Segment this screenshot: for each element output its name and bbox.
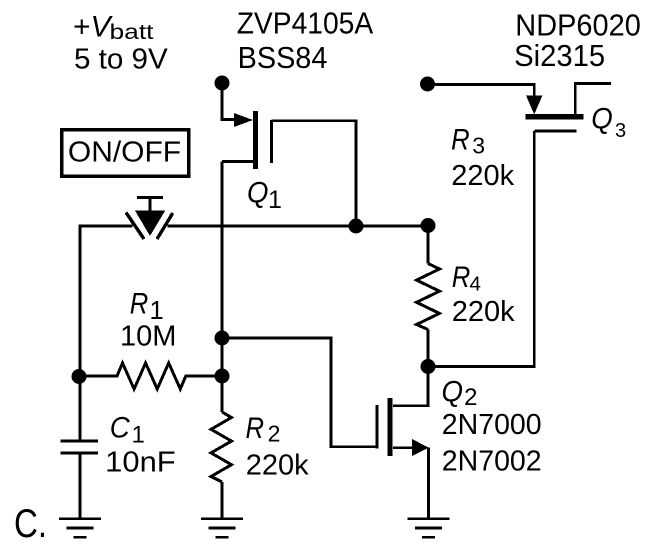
wire: R4 bottom junction to Q3 gate (428, 131, 534, 367)
svg-text:R: R (451, 123, 470, 156)
wire: R2 top lead (221, 376, 224, 412)
wire: Q2 source contact (393, 446, 414, 449)
svg-text:3: 3 (472, 133, 485, 159)
label C1 value 10nF (105, 412, 176, 479)
label R4 value 220k (452, 261, 515, 328)
switch S1 left contact slash (126, 213, 144, 240)
wire: Q3 source lead (435, 85, 534, 97)
svg-text:R: R (130, 288, 149, 321)
wire: Q2 drain lead from junction (393, 367, 428, 406)
label Q2 2N7000 2N7002 (442, 375, 542, 477)
transistor Q3 source arrow (526, 96, 542, 115)
wire: C1 top lead (79, 377, 82, 441)
ground under C1 (59, 519, 101, 537)
transistor Q1 channel bar (253, 111, 258, 169)
svg-text:Q: Q (442, 375, 464, 408)
transistor Q2 source arrow (412, 439, 429, 456)
svg-text:2N7002: 2N7002 (442, 446, 542, 478)
svg-text:1: 1 (132, 421, 145, 448)
resistor R1 body (79, 363, 222, 389)
transistor Q3 channel bar (525, 114, 583, 119)
svg-text:+V: +V (73, 10, 114, 43)
node: Q2 gate branch junction (215, 331, 230, 346)
label Q1 (247, 176, 282, 214)
svg-text:220k: 220k (452, 296, 515, 328)
transistor Q3 gate plate (534, 130, 576, 133)
svg-text:Si2315: Si2315 (514, 39, 605, 73)
switch S1 pushbutton plunger triangle (135, 211, 165, 236)
wire: C1 bottom lead (79, 453, 82, 518)
switch S1 right contact slash (157, 213, 173, 239)
wire: R4 bottom lead (427, 330, 430, 367)
wire: Q1 drain contact (222, 160, 253, 163)
wire: R2 bottom lead (221, 482, 224, 518)
label R3 value 220k (451, 123, 515, 192)
svg-text:ON/OFF: ON/OFF (68, 136, 181, 168)
resistor R2 body (211, 412, 232, 482)
svg-text:R: R (246, 412, 265, 445)
node: R4 top junction (421, 218, 436, 233)
svg-text:R: R (452, 261, 471, 294)
svg-text:10M: 10M (120, 321, 176, 353)
svg-text:batt: batt (110, 21, 154, 44)
node: R4 bottom / Q2 drain junction (421, 359, 436, 374)
svg-text:2: 2 (464, 384, 477, 411)
svg-text:Q: Q (591, 102, 613, 135)
label R2 value 220k (246, 412, 310, 482)
wire: main horizontal net y=226 right of pushbutton to R4 (168, 225, 429, 228)
transistor Q2 channel bar (387, 398, 392, 456)
resistor R4 body (417, 264, 440, 330)
label +Vbatt supply (73, 10, 168, 75)
svg-text:4: 4 (470, 273, 481, 296)
wire: Q3 drain lead up and right (575, 84, 611, 115)
svg-text:220k: 220k (451, 160, 514, 192)
svg-text:2: 2 (268, 421, 281, 447)
ground under Q2 (407, 519, 449, 537)
transistor Q1 gate plate (270, 120, 273, 163)
label NDP6020 / Si2315 for Q3 (514, 9, 641, 73)
svg-text:C: C (110, 412, 130, 445)
node: R1 right / R2 / Q1 drain junction (215, 369, 230, 384)
svg-text:NDP6020: NDP6020 (515, 9, 641, 43)
node: R1 left / C1 junction (72, 369, 87, 384)
svg-text:3: 3 (615, 120, 626, 142)
svg-text:BSS84: BSS84 (238, 41, 328, 75)
label Q3 (591, 102, 626, 142)
wire: Q2 source down to ground (427, 448, 430, 518)
svg-text:1: 1 (268, 186, 282, 214)
transistor Q1 source arrow (234, 113, 253, 127)
box ON/OFF (62, 130, 189, 177)
wire: Q1 drain down to R1/R2 junction (221, 162, 224, 377)
wire: Q1 source lead from supply dot (222, 90, 234, 120)
wire: main horizontal net y=226 left of pushbutton (80, 226, 133, 376)
svg-text:220k: 220k (246, 450, 309, 482)
svg-text:C.: C. (14, 502, 47, 546)
ground under R2 (201, 519, 243, 537)
node: Q3 source supply dot (420, 77, 435, 92)
label R1 value 10M (120, 288, 176, 353)
svg-text:2N7000: 2N7000 (442, 409, 542, 441)
node: Q1 source supply dot (215, 76, 230, 91)
wire: Q2 gate branch from junction (222, 338, 377, 447)
switch S1 pushbutton T-handle (137, 197, 163, 211)
label ZVP4105A / BSS84 for Q1 (237, 7, 374, 75)
transistor Q2 gate plate (376, 405, 379, 448)
wire: Q1 gate lead to node at (356,226) (272, 121, 357, 226)
node: Q1 gate net junction on y=226 wire (349, 219, 364, 234)
wire: R4 top lead (427, 226, 430, 264)
svg-text:ZVP4105A: ZVP4105A (237, 7, 374, 41)
capacitor C1 plates (61, 441, 99, 453)
svg-text:5 to 9V: 5 to 9V (74, 44, 168, 76)
svg-text:10nF: 10nF (105, 447, 176, 479)
svg-text:Q: Q (247, 176, 269, 209)
